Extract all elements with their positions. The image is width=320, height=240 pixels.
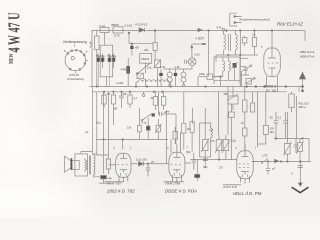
wire transformer left drop — [208, 30, 210, 55]
potentiometer right-bottom 2 — [299, 139, 301, 143]
tube V1 grid stub — [108, 164, 115, 166]
wire AF output line y160 — [190, 159, 237, 161]
svg-text:VY1/VY2: VY1/VY2 — [135, 22, 148, 26]
switch arm S1 — [138, 63, 150, 73]
capacitor C right mid 2 — [283, 112, 288, 139]
capacitor right-bottom mid — [294, 139, 299, 154]
svg-text:+4μ: +4μ — [107, 176, 112, 180]
svg-text:RöV EL3+AZ: RöV EL3+AZ — [277, 22, 303, 27]
svg-text:5THR 7007: 5THR 7007 — [107, 181, 122, 185]
potentiometer mid right — [156, 125, 161, 132]
tube V3 side pin — [253, 161, 257, 163]
terminal oval on bus2 — [142, 94, 145, 97]
wire bus2 end hook — [260, 91, 287, 93]
capacitor C top right — [242, 38, 247, 44]
wire right vertical x299 upper — [298, 87, 300, 92]
svg-text:25: 25 — [150, 160, 154, 164]
svg-text:a 1Ma: a 1Ma — [116, 81, 124, 85]
switch stub 3 — [240, 74, 249, 76]
svg-text:4/7CC 17N: 4/7CC 17N — [223, 185, 238, 189]
svg-text:C75: C75 — [114, 34, 120, 38]
node transformer tops — [226, 30, 228, 32]
ballast block rectangle — [100, 45, 113, 77]
underline V3 label — [223, 184, 241, 186]
tube V3 envelope — [237, 151, 253, 179]
IF circuit 2 capacitor — [175, 69, 177, 73]
tube V1 pins — [119, 176, 128, 182]
switch block DM21 — [140, 54, 152, 64]
svg-text:10k: 10k — [127, 126, 132, 130]
tube V1 cathode — [120, 170, 128, 173]
wire vertical x139.4 — [138, 108, 140, 125]
wire output line y161 — [252, 161, 312, 163]
capacitor C elko 3 — [108, 54, 110, 58]
svg-text:5μF: 5μF — [203, 165, 208, 169]
wire rectifier tap — [129, 33, 153, 44]
tube V3 anode — [242, 151, 249, 157]
potentiometer box volume — [228, 96, 238, 104]
tube V1 grids — [118, 164, 129, 166]
wire speaker bottom — [94, 175, 101, 177]
title model designation MEW 4W47U (rotated) — [5, 13, 24, 65]
wire vertical x108.4 — [107, 92, 109, 159]
wire above tube V2 small boxes — [173, 132, 177, 140]
svg-text:0,1μ 25V: 0,1μ 25V — [136, 158, 147, 162]
capacitor C right mid 1 — [274, 112, 279, 139]
capacitor on ground drop — [298, 165, 303, 167]
node on y139 — [122, 139, 124, 141]
resistor Rk1 below bus — [103, 92, 105, 95]
svg-text:0,1: 0,1 — [210, 128, 214, 132]
wire vertical x96.8 lower — [96, 92, 98, 155]
node dots on chassis bus right — [246, 86, 248, 88]
tube V2 anode — [173, 152, 180, 157]
electrolytic cap C elko out — [101, 176, 107, 179]
wire heater bus 2 — [92, 91, 260, 93]
svg-text:0,2μ: 0,2μ — [231, 139, 237, 143]
svg-text:DDDE # D. PDA: DDDE # D. PDA — [165, 189, 197, 194]
potentiometer right-bottom 1 — [287, 139, 289, 144]
node y161 dots — [287, 161, 289, 163]
wire loop rectangle — [200, 123, 211, 157]
svg-text:4 mA: 4 mA — [89, 41, 93, 48]
svg-text:0,1: 0,1 — [278, 116, 282, 120]
wire AF line y139 — [96, 139, 168, 141]
svg-text:4 W 47 U: 4 W 47 U — [5, 13, 24, 53]
IF circuit 2 coil L2 — [183, 69, 185, 72]
resistor R right drop — [254, 30, 256, 38]
resistor R mid-bottom 1 — [218, 135, 220, 140]
wire vertical x113.5 — [113, 110, 115, 125]
coil on loop right branch — [211, 128, 213, 157]
tube V4 anode lead to rail — [271, 30, 273, 48]
svg-text:4,7: 4,7 — [134, 97, 138, 101]
svg-text:Tonabnehmeranschluß: Tonabnehmeranschluß — [239, 18, 270, 22]
switch stub 2 — [240, 65, 246, 67]
tube V2 envelope — [169, 152, 185, 178]
diode detector between V1 V2 — [131, 163, 169, 165]
svg-text:0,1A: 0,1A — [99, 24, 105, 28]
svg-text:MEW: MEW — [9, 53, 15, 64]
tube V1 envelope — [116, 153, 131, 177]
wire vertical x92.5 lower — [92, 87, 94, 156]
wire drop to R network — [154, 30, 156, 43]
diode Gl1 — [139, 28, 145, 32]
svg-text:EL 7A: EL 7A — [266, 89, 276, 93]
rail arrowhead — [198, 28, 202, 31]
resistor R anode V2 — [190, 122, 194, 133]
tube V3 pins — [241, 177, 250, 185]
svg-text:6,3V: 6,3V — [195, 53, 201, 57]
svg-text:50k: 50k — [123, 92, 128, 96]
wire +62V tap — [192, 43, 206, 45]
svg-text:DM21: DM21 — [141, 57, 149, 61]
node rail junction x155 — [154, 30, 156, 32]
tube V4 cathode — [269, 68, 276, 72]
svg-text:50μ50μ: 50μ50μ — [96, 54, 105, 58]
tube V3 top lead — [244, 144, 246, 151]
bus junction dots — [135, 86, 137, 88]
electrolytic cap below AF line — [196, 160, 198, 175]
resistor R left of V1 — [106, 159, 110, 169]
resistor R1 on mains drop — [95, 36, 99, 50]
capacitor C dark blob mid — [147, 118, 149, 126]
wire top B+ rail — [92, 31, 305, 42]
capacitor C elko 1 — [97, 54, 99, 58]
IF transformer 2 coil A — [223, 57, 225, 73]
IF transformer 2 rung 2 — [214, 68, 240, 81]
capacitor below output line — [266, 162, 271, 175]
wire loop bottom — [200, 156, 211, 158]
tube V2 top lead — [171, 139, 177, 152]
rectifier tube V4 envelope — [264, 48, 281, 77]
wire ground drop — [299, 162, 301, 187]
svg-text:2kΩ μ: 2kΩ μ — [299, 105, 307, 109]
node at 220k — [220, 76, 222, 78]
resistor R cluster top — [251, 103, 255, 112]
wire verticals above bottles — [219, 87, 245, 136]
switch contact 2 — [245, 79, 254, 85]
resistor R grid V2 — [183, 92, 185, 124]
tube V4 grid dashes — [268, 62, 279, 64]
antenna arrow symbol — [299, 72, 305, 90]
speaker transformer frame — [75, 154, 88, 176]
svg-text:600Ω d: 600Ω d — [265, 85, 278, 89]
tube V3 bottom electrode marks — [243, 175, 248, 178]
wire vertical x257 — [257, 92, 259, 147]
wire small stub — [191, 44, 193, 47]
terminal circle on rail — [222, 29, 225, 32]
svg-text:B250: B250 — [112, 23, 119, 27]
wire left mains drop — [91, 30, 93, 87]
small box with slash — [137, 73, 144, 78]
underline V1 label — [104, 181, 123, 183]
svg-text:4/7M: 4/7M — [121, 68, 127, 72]
switch small box — [246, 79, 252, 85]
tube V2 bottom electrode marks — [174, 173, 180, 176]
node bottom dots — [228, 54, 230, 56]
wire vertical x192.5 mid — [192, 108, 194, 124]
svg-text:5THR 17RB: 5THR 17RB — [165, 181, 180, 185]
capacitor below P1 — [203, 151, 208, 168]
switch stub 1 — [240, 57, 248, 59]
wire left drop extension — [208, 55, 210, 77]
capacitor C elko 4 — [113, 54, 115, 58]
tube V2 cathode — [173, 170, 181, 173]
wire transformer top links — [224, 30, 236, 34]
svg-text:4/7T: 4/7T — [164, 110, 170, 114]
svg-text:4,7k: 4,7k — [217, 25, 223, 29]
switch contact left of tube — [242, 66, 251, 87]
resistor R small mid — [127, 58, 129, 66]
node rail right — [254, 30, 256, 32]
svg-text:0,1A2: 0,1A2 — [125, 24, 133, 28]
heater chain loops — [136, 80, 171, 82]
pickup connector box — [230, 13, 237, 26]
output transformer core — [228, 34, 230, 51]
svg-text:4,7Ω: 4,7Ω — [160, 65, 166, 69]
svg-text:1EL: 1EL — [270, 130, 275, 134]
svg-text:HSB-07+A: HSB-07+A — [300, 55, 314, 59]
resistor R above V3 lower — [243, 128, 247, 136]
svg-text:HB6-S.0-A: HB6-S.0-A — [300, 50, 314, 54]
wire transformer bottom line — [216, 30, 258, 87]
wire vertical x103.5 lower — [103, 92, 105, 174]
wire verticals right-bottom — [287, 112, 289, 139]
svg-text:Gerätespannung: Gerätespannung — [63, 40, 87, 44]
output transformer secondary loops — [94, 154, 95, 176]
resistor R right below bus — [291, 92, 293, 94]
wire drop from 220k — [198, 77, 221, 87]
svg-text:+ 62V: + 62V — [195, 37, 205, 41]
capacitor beside lamp — [185, 60, 189, 64]
resistor Rk2 below bus — [113, 92, 115, 95]
series capacitor C on AF link — [158, 92, 176, 144]
wire chassis bus 1 — [89, 86, 303, 88]
wire speaker links — [85, 154, 97, 172]
IF transformer 2 frame — [214, 57, 240, 84]
wire speaker top link — [81, 152, 108, 156]
capacitor Ck below bus — [119, 92, 124, 108]
output transformer primary — [224, 34, 226, 51]
tube V4 pin leads — [267, 72, 278, 92]
resistor Rk5 below bus — [163, 92, 165, 97]
wire pot leads — [232, 87, 234, 111]
node rail at transformer — [208, 30, 210, 32]
svg-text:0,1μ: 0,1μ — [142, 121, 148, 125]
capacitor small left of tube — [244, 68, 249, 76]
IF circuit 1 coil L1 — [169, 69, 171, 72]
node under rectifier — [128, 32, 130, 34]
potentiometer P1 — [202, 140, 208, 151]
tube V3 grids — [239, 163, 250, 165]
potentiometer small right — [155, 60, 161, 68]
resistor R mid-bottom 2 — [225, 135, 227, 140]
resistor R 220k horizontal — [198, 76, 207, 78]
switch contact on output line — [262, 159, 268, 163]
tube V3 cathode — [241, 172, 249, 175]
potentiometer arrow 1 — [215, 140, 223, 154]
node on output line — [267, 161, 269, 163]
resistor Rk3 below bus — [129, 92, 131, 95]
wire feedback line y138.5 — [274, 138, 309, 140]
node dots on AF line — [204, 159, 206, 161]
svg-text:+50: +50 — [135, 46, 140, 50]
speaker voice coil dark bar — [71, 158, 73, 170]
svg-text:50μ50μ: 50μ50μ — [108, 54, 117, 58]
svg-text:12a: 12a — [147, 66, 152, 70]
dial lamp La — [188, 58, 196, 66]
svg-text:0,1μ: 0,1μ — [96, 121, 102, 125]
resistor Rk4 below bus — [154, 92, 156, 97]
wire vertical x205 — [204, 108, 206, 140]
wire vertical x296.5 — [296, 96, 298, 139]
svg-text:220k: 220k — [199, 72, 205, 76]
speaker cone — [65, 156, 71, 172]
IF trimmer dark — [233, 63, 237, 68]
svg-text:50p: 50p — [186, 150, 191, 154]
resistor R grid V3 — [263, 125, 268, 134]
wire lamp leads — [191, 47, 193, 69]
IF transformer 2 rung 1 — [214, 73, 223, 77]
underline V2 label — [164, 181, 185, 183]
IF circuit 1 capacitor — [160, 69, 162, 73]
capacitor C elko 2 — [102, 54, 104, 58]
svg-text:47k: 47k — [211, 139, 216, 143]
PSU labels — [99, 22, 148, 37]
tube V4 anode — [268, 48, 276, 58]
tube V1 anode — [120, 153, 127, 158]
speaker field coil zigzag — [85, 160, 87, 170]
svg-text:μF: μF — [271, 167, 275, 171]
capacitor right of V2 — [185, 153, 196, 170]
IF link top wire — [164, 68, 193, 70]
earphone plug symbol — [229, 112, 235, 117]
tube V2 pins — [172, 175, 181, 182]
wire vertical x166.3 — [165, 110, 167, 164]
svg-text:0,1: 0,1 — [252, 33, 256, 37]
wire under cap — [99, 182, 110, 184]
svg-text:1,2k: 1,2k — [175, 65, 181, 69]
svg-text:+/7C: +/7C — [262, 154, 268, 158]
output transformer secondary — [235, 34, 237, 51]
output transformer core lines — [89, 156, 90, 175]
arrowhead on ground drop — [298, 183, 302, 186]
svg-text:0,5: 0,5 — [219, 166, 223, 170]
coupling capacitor C mid — [138, 125, 142, 132]
svg-text:Rö1 100: Rö1 100 — [299, 102, 310, 106]
rectifier B250 C75 — [113, 27, 123, 33]
wire tube1 grid drop — [122, 139, 124, 150]
speaker magnet box — [72, 161, 79, 170]
capacitor C dark across rectifier — [131, 44, 133, 46]
tube V2 grids — [171, 164, 182, 166]
svg-text:17k: 17k — [270, 127, 275, 131]
potentiometer arrow 2 — [222, 140, 230, 154]
ground chassis symbol — [292, 187, 309, 193]
svg-text:μ4: μ4 — [85, 130, 89, 134]
svg-text:HDLL d D. PM: HDLL d D. PM — [233, 191, 262, 196]
tube socket diagram (Geraetespannung) — [64, 45, 88, 74]
node at diode — [147, 163, 149, 165]
capacitor after diode — [146, 164, 151, 177]
wire from switch to bus — [145, 63, 147, 86]
wire feed to ballast block — [105, 33, 107, 87]
resistor R dropper — [153, 43, 157, 51]
fuse F1 0,1A — [100, 28, 109, 33]
diode contact 2 — [275, 159, 279, 163]
svg-text:A/D: A/D — [144, 48, 148, 52]
svg-text:50k: 50k — [224, 92, 229, 96]
IF transformer 2 coil B — [229, 57, 231, 73]
svg-text:Umschaltung: Umschaltung — [67, 77, 84, 81]
switch diagonal band arm — [143, 114, 153, 120]
wire corner x309 — [308, 139, 310, 162]
resistor R above V3 left — [244, 112, 246, 128]
svg-text:2002 # D. 702: 2002 # D. 702 — [106, 189, 135, 194]
tube V1 bottom electrode marks — [121, 173, 127, 176]
